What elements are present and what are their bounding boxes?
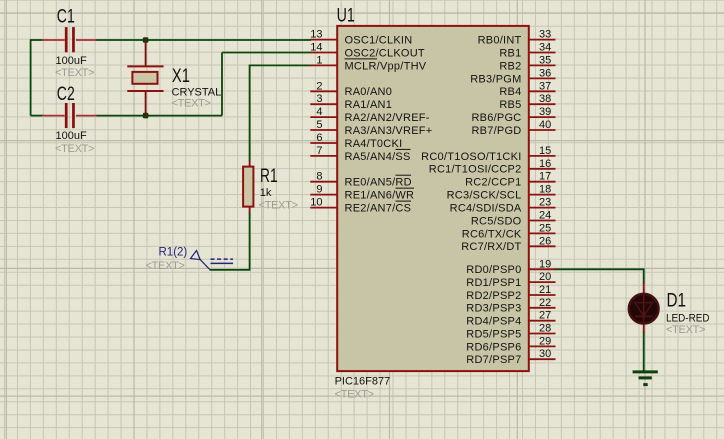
wire net OSC1 top horizontal — [31, 39, 311, 41]
RD overline — [396, 174, 412, 176]
svg-text:25: 25 — [539, 222, 551, 234]
node junction crystal top — [143, 37, 149, 43]
svg-text:RA0/AN0: RA0/AN0 — [345, 86, 393, 98]
svg-text:RB2: RB2 — [499, 60, 521, 72]
svg-text:29: 29 — [539, 335, 551, 347]
svg-text:2: 2 — [316, 80, 322, 92]
svg-text:RB0/INT: RB0/INT — [478, 35, 522, 47]
svg-text:C2: C2 — [57, 84, 75, 105]
svg-text:RC7/RX/DT: RC7/RX/DT — [461, 241, 521, 253]
value PIC16F877 — [335, 376, 391, 388]
svg-text:RD5/PSP5: RD5/PSP5 — [466, 328, 521, 340]
svg-text:<TEXT>: <TEXT> — [146, 260, 185, 272]
pin 26 (RC7/RX/DT) — [461, 235, 555, 253]
value 100uF (C1) — [56, 55, 87, 67]
pin 25 (RC6/TX/CK) — [462, 222, 556, 240]
svg-text:21: 21 — [539, 284, 551, 296]
pin 22 (RD3/PSP3) — [466, 297, 555, 315]
pin 24 (RC5/SDO) — [471, 210, 556, 228]
svg-text:28: 28 — [539, 323, 551, 335]
SS overline — [396, 148, 411, 150]
svg-text:7: 7 — [316, 145, 322, 157]
label C2 — [57, 84, 75, 105]
pin 29 (RD6/PSP6) — [466, 335, 555, 353]
pin 14 (OSC2/CLKOUT) — [310, 42, 425, 60]
capacitor C1 — [42, 27, 97, 52]
svg-text:16: 16 — [539, 158, 551, 170]
CS overline — [396, 200, 412, 202]
pin 19 (RD0/PSP0) — [466, 258, 555, 276]
svg-text:36: 36 — [539, 67, 551, 79]
svg-text:RD4/PSP4: RD4/PSP4 — [466, 316, 521, 328]
pin 6 (RA4/T0CKI) — [310, 132, 402, 150]
svg-text:RA4/T0CKI: RA4/T0CKI — [345, 138, 403, 150]
value LED-RED — [666, 313, 710, 325]
wire MCLR horizontal — [250, 64, 311, 66]
wire LED drop vertical — [643, 268, 645, 284]
svg-text:R1(2): R1(2) — [159, 247, 188, 259]
label U1 — [337, 6, 355, 27]
svg-text:RC4/SDI/SDA: RC4/SDI/SDA — [450, 203, 522, 215]
property text probe — [146, 260, 185, 272]
svg-text:100uF: 100uF — [56, 55, 87, 67]
wire R1 bottom vertical — [249, 212, 251, 270]
node junction crystal bottom — [143, 113, 149, 119]
capacitor C2 — [42, 103, 97, 128]
svg-text:RE2/AN7/CS: RE2/AN7/CS — [345, 203, 412, 215]
label D1 — [667, 291, 687, 312]
pin 40 (RB7/PGD) — [471, 119, 555, 137]
svg-text:RA2/AN2/VREF-: RA2/AN2/VREF- — [345, 112, 430, 124]
svg-text:30: 30 — [539, 348, 551, 360]
svg-text:RC0/T1OSO/T1CKI: RC0/T1OSO/T1CKI — [421, 151, 521, 163]
pin 5 (RA3/AN3/VREF+) — [310, 119, 432, 137]
svg-text:D1: D1 — [667, 291, 687, 312]
pin 7 (RA5/AN4/SS) — [310, 145, 410, 163]
svg-text:1k: 1k — [260, 187, 272, 199]
svg-text:6: 6 — [316, 132, 322, 144]
MCLR overline — [345, 58, 378, 60]
svg-text:100uF: 100uF — [56, 130, 87, 142]
svg-text:RC5/SDO: RC5/SDO — [471, 215, 522, 227]
wire bottom horizontal — [31, 115, 222, 117]
svg-text:23: 23 — [539, 197, 551, 209]
property text C2 — [55, 143, 94, 155]
svg-text:PIC16F877: PIC16F877 — [335, 376, 391, 388]
svg-text:20: 20 — [539, 271, 551, 283]
svg-text:<TEXT>: <TEXT> — [172, 97, 211, 109]
svg-text:RD1/PSP1: RD1/PSP1 — [466, 277, 521, 289]
svg-text:24: 24 — [539, 210, 551, 222]
wire LED to ground — [643, 331, 645, 372]
svg-text:RC1/T1OSI/CCP2: RC1/T1OSI/CCP2 — [429, 164, 522, 176]
pin 23 (RC4/SDI/SDA) — [450, 197, 556, 215]
voltage probe R1(2) — [191, 251, 234, 270]
svg-text:19: 19 — [539, 258, 551, 270]
pin 30 (RD7/PSP7) — [466, 348, 555, 366]
svg-text:R1: R1 — [260, 166, 278, 187]
svg-text:OSC2/CLKOUT: OSC2/CLKOUT — [345, 47, 425, 59]
svg-text:38: 38 — [539, 93, 551, 105]
wire left vertical — [30, 39, 32, 115]
svg-text:RE0/AN5/RD: RE0/AN5/RD — [345, 177, 412, 189]
pin 36 (RB3/PGM) — [470, 67, 555, 85]
svg-text:27: 27 — [539, 310, 551, 322]
label R1(2) — [159, 247, 188, 259]
svg-text:9: 9 — [316, 184, 322, 196]
pin 17 (RC2/CCP1) — [465, 171, 555, 189]
wire RD0 to LED horizontal — [555, 268, 644, 270]
label R1 — [260, 166, 278, 187]
wire probe horizontal — [210, 269, 251, 271]
svg-text:33: 33 — [539, 29, 551, 41]
pin 35 (RB2) — [499, 54, 555, 72]
value CRYSTAL — [172, 87, 222, 99]
pin 4 (RA2/AN2/VREF-) — [310, 106, 429, 124]
value 1k — [260, 187, 272, 199]
pin 15 (RC0/T1OSO/T1CKI) — [421, 145, 555, 163]
svg-text:RB7/PGD: RB7/PGD — [471, 125, 521, 137]
svg-text:<TEXT>: <TEXT> — [335, 388, 374, 400]
microcontroller U1 PIC16F877 body — [337, 26, 529, 371]
svg-text:RC6/TX/CK: RC6/TX/CK — [462, 228, 522, 240]
svg-text:RB1: RB1 — [499, 47, 521, 59]
pin 38 (RB5) — [499, 93, 555, 111]
pin 18 (RC3/SCK/SCL) — [447, 184, 556, 202]
label X1 — [172, 66, 190, 87]
svg-text:RB4: RB4 — [499, 86, 521, 98]
svg-text:RA3/AN3/VREF+: RA3/AN3/VREF+ — [345, 125, 433, 137]
pin 20 (RD1/PSP1) — [466, 271, 555, 289]
pin 10 (RE2/AN7/CS) — [310, 197, 411, 215]
svg-text:RD0/PSP0: RD0/PSP0 — [466, 264, 521, 276]
svg-text:RD7/PSP7: RD7/PSP7 — [466, 354, 521, 366]
svg-text:RC2/CCP1: RC2/CCP1 — [465, 177, 521, 189]
svg-text:U1: U1 — [337, 6, 355, 27]
property text U1 — [335, 388, 374, 400]
svg-text:15: 15 — [539, 145, 551, 157]
svg-text:RB3/PGM: RB3/PGM — [470, 73, 521, 85]
property text R1 — [259, 200, 298, 212]
wire OSC2 horizontal — [222, 52, 311, 54]
pin 33 (RB0/INT) — [478, 29, 556, 47]
svg-text:5: 5 — [316, 119, 322, 131]
svg-text:<TEXT>: <TEXT> — [259, 200, 298, 212]
value 100uF (C2) — [56, 130, 87, 142]
svg-text:RB5: RB5 — [499, 99, 521, 111]
pin 34 (RB1) — [499, 42, 555, 60]
svg-text:37: 37 — [539, 80, 551, 92]
svg-text:13: 13 — [310, 29, 322, 41]
svg-text:17: 17 — [539, 171, 551, 183]
svg-text:18: 18 — [539, 184, 551, 196]
svg-text:<TEXT>: <TEXT> — [55, 143, 94, 155]
svg-text:MCLR/Vpp/THV: MCLR/Vpp/THV — [345, 60, 427, 72]
svg-text:LED-RED: LED-RED — [666, 313, 710, 325]
ground — [633, 372, 658, 385]
wire MCLR vertical to R1 — [249, 65, 251, 162]
pin 2 (RA0/AN0) — [310, 80, 392, 98]
svg-text:10: 10 — [310, 197, 322, 209]
svg-text:14: 14 — [310, 42, 322, 54]
crystal X1 — [127, 39, 163, 117]
svg-text:34: 34 — [539, 42, 551, 54]
pin 21 (RD2/PSP2) — [466, 284, 555, 302]
svg-text:40: 40 — [539, 119, 551, 131]
svg-text:RD3/PSP3: RD3/PSP3 — [466, 303, 521, 315]
svg-text:8: 8 — [316, 171, 322, 183]
property text D1 — [666, 324, 705, 336]
pin 8 (RE0/AN5/RD) — [310, 171, 411, 189]
LED D1 — [629, 283, 659, 333]
WR overline — [396, 187, 415, 189]
property text X1 — [172, 97, 211, 109]
resistor R1 — [243, 161, 253, 214]
pin 13 (OSC1/CLKIN) — [310, 29, 412, 47]
svg-text:1: 1 — [316, 54, 322, 66]
svg-text:C1: C1 — [57, 7, 75, 28]
pin 27 (RD4/PSP4) — [466, 310, 555, 328]
pin 39 (RB6/PGC) — [471, 106, 555, 124]
pin 16 (RC1/T1OSI/CCP2) — [429, 158, 556, 176]
pin 3 (RA1/AN1) — [310, 93, 392, 111]
svg-text:<TEXT>: <TEXT> — [55, 67, 94, 79]
svg-text:RA5/AN4/SS: RA5/AN4/SS — [345, 151, 411, 163]
svg-text:X1: X1 — [172, 66, 190, 87]
svg-text:<TEXT>: <TEXT> — [666, 324, 705, 336]
svg-text:RD6/PSP6: RD6/PSP6 — [466, 341, 521, 353]
svg-text:3: 3 — [316, 93, 322, 105]
svg-text:OSC1/CLKIN: OSC1/CLKIN — [345, 35, 413, 47]
svg-text:RE1/AN6/WR: RE1/AN6/WR — [345, 190, 415, 202]
svg-text:RB6/PGC: RB6/PGC — [471, 112, 521, 124]
svg-text:RC3/SCK/SCL: RC3/SCK/SCL — [447, 190, 522, 202]
svg-text:4: 4 — [316, 106, 322, 118]
svg-text:39: 39 — [539, 106, 551, 118]
svg-text:26: 26 — [539, 235, 551, 247]
pin 1 (MCLR/Vpp/THV) — [310, 54, 426, 72]
svg-text:RA1/AN1: RA1/AN1 — [345, 99, 393, 111]
label C1 — [57, 7, 75, 28]
svg-text:35: 35 — [539, 54, 551, 66]
pin 9 (RE1/AN6/WR) — [310, 184, 414, 202]
svg-text:22: 22 — [539, 297, 551, 309]
pin 28 (RD5/PSP5) — [466, 323, 555, 341]
wire vertical riser to OSC2 — [221, 53, 223, 116]
property text C1 — [55, 67, 94, 79]
svg-text:RD2/PSP2: RD2/PSP2 — [466, 290, 521, 302]
pin 37 (RB4) — [499, 80, 555, 98]
